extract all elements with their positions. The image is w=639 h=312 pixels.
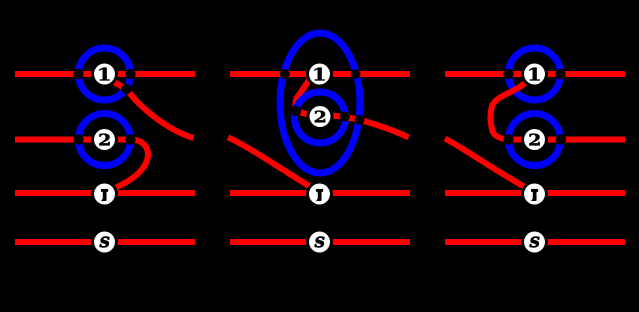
- wire: stub from dot to node 2, panel 2: [296, 111, 313, 116]
- wire: tail from node 2 to right, panel 2: [331, 116, 409, 138]
- wire: panel2 red hook from node 1 down to circle around node 2 (under blue): [296, 76, 312, 111]
- node label at (319.5,242.0): [315, 237, 325, 248]
- junction dot: line 2 x circle 2 left, panel 1: [73, 134, 83, 144]
- node T panel 3: [521, 181, 548, 208]
- circle around node 2, panel 3: [509, 114, 561, 166]
- node label at (104.5,139.5): [99, 134, 109, 146]
- junction dot: hook x inner circle upper-left, panel 2: [291, 106, 301, 116]
- junction dot: tail x inner circle right, panel 2: [340, 112, 350, 122]
- wire: line 2 panel 1: [15, 137, 131, 143]
- node S panel 1: [91, 229, 118, 256]
- node T panel 1: [91, 181, 118, 208]
- junction dot: line 1 x ellipse right, panel 2: [351, 69, 361, 79]
- junction dot: line 2 x circle 2 right, panel 3: [556, 134, 566, 144]
- wire: C-curve from node 1 to node 2 left dot, panel 3: [490, 82, 526, 140]
- wire: line T panel 1: [15, 190, 195, 196]
- node S panel 3: [521, 229, 548, 256]
- node T panel 2: [306, 181, 333, 208]
- wire: line 2 right part panel 3: [535, 137, 626, 143]
- node 1 panel 2: [306, 61, 333, 88]
- wire: hook from node 2 down to node T, panel 1: [106, 140, 148, 193]
- junction dot: tail x ellipse right, panel 2: [355, 115, 365, 125]
- node label at (534.5,242.0): [530, 237, 540, 248]
- node label at (534.5,74.0): [529, 68, 539, 81]
- wire: line S panel 3: [445, 239, 625, 245]
- junction dot: line 1 x circle 1 left, panel 3: [503, 69, 513, 79]
- wire: line T panel 3: [445, 190, 625, 196]
- node 2 panel 2: [307, 103, 334, 130]
- wire: line T panel 2: [230, 190, 410, 196]
- wire: line 1 panel 3: [445, 71, 625, 77]
- outer ellipse enclosing nodes 1 and 2, panel 2: [280, 33, 360, 173]
- junction dot: exit curve x circle 1, panel 1: [121, 84, 131, 94]
- node label at (319.5,74.0): [314, 68, 324, 81]
- circle around node 1, panel 1: [79, 48, 131, 100]
- node label at (319.5,194.7): [316, 189, 323, 201]
- wire: line 1 panel 1: [15, 71, 195, 77]
- node 2 panel 3: [521, 126, 548, 153]
- node label at (534.5,139.5): [529, 134, 539, 146]
- node label at (320,116.5): [315, 111, 325, 123]
- node label at (104.5,242.0): [100, 237, 110, 248]
- node S panel 2: [306, 229, 333, 256]
- inner circle around node 2, panel 2: [295, 92, 346, 143]
- junction dot: line 1 x circle 1 left, panel 1: [73, 69, 83, 79]
- node 1 panel 1: [91, 61, 118, 88]
- junction dot: C-curve x circle 2 left, panel 3: [503, 134, 513, 144]
- node label at (534.5,194.7): [531, 189, 538, 201]
- node 1 panel 3: [521, 61, 548, 88]
- wire: line S panel 1: [15, 239, 195, 245]
- junction dot: line 1 x circle 1 right, panel 1: [125, 69, 135, 79]
- wire: line 1 panel 2: [230, 71, 410, 77]
- junction dot: line 1 x circle 1 right, panel 3: [555, 69, 565, 79]
- circle around node 1, panel 3: [509, 48, 561, 100]
- node 2 panel 1: [91, 126, 118, 153]
- wire: exit curve from node 1 panel 1: [111, 80, 194, 138]
- junction dot: line 1 x ellipse left, panel 2: [280, 69, 290, 79]
- node label at (104.5,194.7): [101, 189, 108, 201]
- wire: line S panel 2: [230, 239, 410, 245]
- wire: left curve down to node T, panel 2: [228, 138, 320, 193]
- node label at (104.5,74.0): [99, 68, 109, 81]
- junction dot: line 2 x circle 2 right, panel 1: [125, 134, 135, 144]
- wire: left curve down to node T, panel 3: [445, 139, 535, 193]
- circle around node 2, panel 1: [79, 114, 131, 166]
